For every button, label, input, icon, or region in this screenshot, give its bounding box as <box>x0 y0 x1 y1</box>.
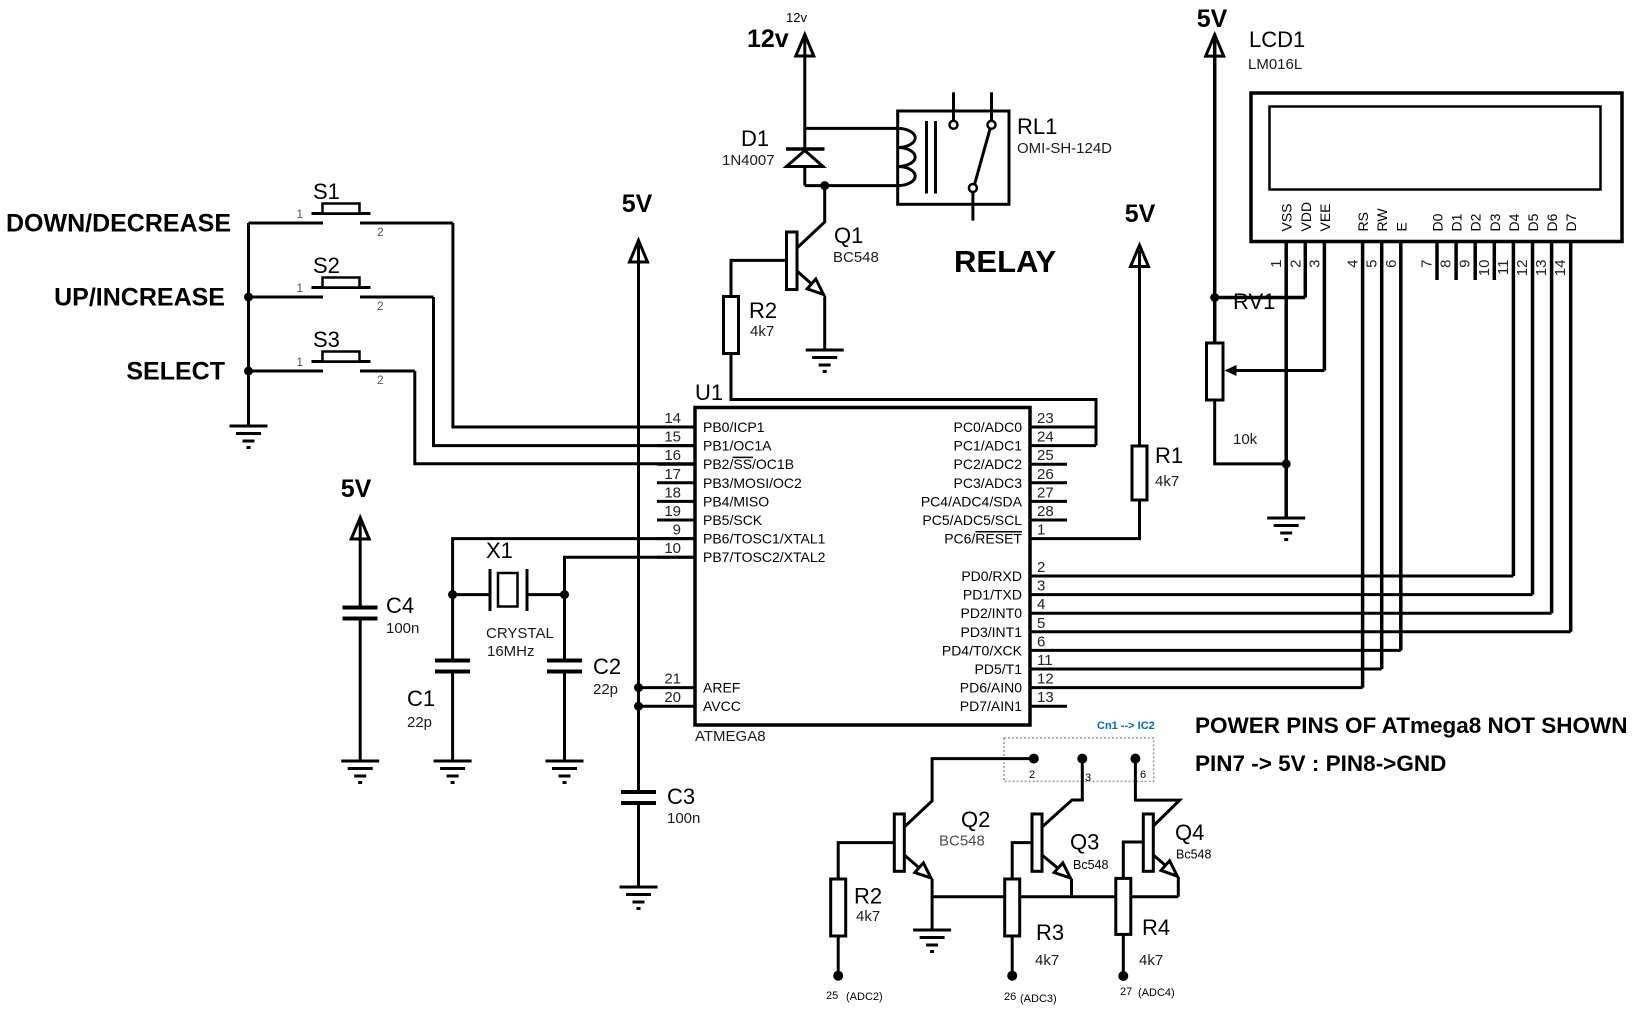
wire 5V to C4 <box>359 522 362 607</box>
svg-text:PB1/OC1A: PB1/OC1A <box>703 438 772 454</box>
resistor R2 (Q2) <box>831 879 846 936</box>
svg-text:17: 17 <box>664 466 681 483</box>
wire Cn1 pin6 to Q4 <box>1135 759 1179 827</box>
LCD LCD1 body <box>1251 93 1622 242</box>
svg-text:27: 27 <box>1120 986 1132 998</box>
svg-text:26: 26 <box>1037 466 1054 483</box>
power arrow 12v <box>796 35 814 57</box>
relay RL1 <box>898 92 1009 220</box>
wire Q1 base <box>731 260 787 296</box>
svg-text:2: 2 <box>377 373 384 387</box>
node Cn1 pin 3 <box>1077 754 1087 764</box>
svg-text:PC5/ADC5/SCL: PC5/ADC5/SCL <box>922 512 1022 528</box>
svg-text:2: 2 <box>1037 559 1045 576</box>
junction AREF <box>634 683 643 692</box>
ground (C3) <box>620 887 658 909</box>
switch S3 <box>249 327 415 387</box>
wire PD2 to D6 <box>1030 612 1552 615</box>
resistor R3 <box>1005 879 1020 936</box>
svg-text:PC1/ADC1: PC1/ADC1 <box>954 438 1023 454</box>
svg-text:C4: C4 <box>386 593 414 618</box>
pin 16 PB2/SS/OC1B <box>657 447 794 472</box>
ground (Q2 emitter) <box>913 930 951 952</box>
svg-text:22p: 22p <box>593 681 618 698</box>
svg-text:VDD: VDD <box>1298 202 1314 232</box>
pin 9 PB6/TOSC1/XTAL1 <box>657 522 826 547</box>
svg-text:PC2/ADC2: PC2/ADC2 <box>954 456 1023 472</box>
pin 19 PB5/SCK <box>657 503 763 528</box>
svg-text:LCD1: LCD1 <box>1249 27 1305 52</box>
pin 26 PC3/ADC3 <box>954 466 1067 491</box>
svg-text:PIN7 -> 5V : PIN8->GND: PIN7 -> 5V : PIN8->GND <box>1195 751 1446 776</box>
svg-text:PC3/ADC3: PC3/ADC3 <box>954 475 1023 491</box>
pin 4 RS <box>1345 212 1372 688</box>
svg-text:10k: 10k <box>1233 431 1258 448</box>
wire R1 to PC6/RESET pin 1 <box>1030 500 1140 539</box>
junction at S2 <box>244 293 253 302</box>
resistor R2 (Q1 base) <box>724 297 739 354</box>
svg-text:5V: 5V <box>341 475 372 503</box>
svg-text:D2: D2 <box>1468 213 1484 231</box>
svg-text:PB2/SS/OC1B: PB2/SS/OC1B <box>703 456 794 472</box>
pin 4 PD2/INT0 <box>961 596 1046 621</box>
svg-text:RS: RS <box>1355 212 1371 231</box>
svg-text:D0: D0 <box>1430 213 1446 231</box>
wire S1 to PB0 <box>453 223 695 427</box>
svg-text:BC548: BC548 <box>833 249 879 266</box>
capacitor C2 <box>547 661 582 761</box>
svg-text:PD7/AIN1: PD7/AIN1 <box>960 698 1022 714</box>
svg-text:11: 11 <box>1037 652 1053 669</box>
svg-text:R2: R2 <box>854 884 882 909</box>
pin 11 PD5/T1 <box>975 652 1053 677</box>
svg-text:(ADC4): (ADC4) <box>1138 987 1175 999</box>
svg-text:RL1: RL1 <box>1017 114 1057 139</box>
power arrow 5V (R1) <box>1131 245 1149 266</box>
svg-text:R1: R1 <box>1155 443 1183 468</box>
pin 14 PB0/ICP1 <box>657 410 765 435</box>
wire R4 to ADC4 terminal <box>1122 934 1125 971</box>
svg-text:DOWN/DECREASE: DOWN/DECREASE <box>6 210 231 238</box>
svg-text:23: 23 <box>1037 410 1054 427</box>
svg-text:13: 13 <box>1533 260 1550 277</box>
svg-text:3: 3 <box>1306 260 1323 268</box>
svg-text:6: 6 <box>1037 633 1045 650</box>
pin 27 PC4/ADC4/SDA <box>921 484 1067 509</box>
svg-text:RELAY: RELAY <box>954 244 1057 279</box>
node Cn1 pin 2 <box>1029 754 1039 764</box>
svg-text:Q2: Q2 <box>961 807 990 832</box>
junction at S3 <box>244 367 253 376</box>
svg-text:15: 15 <box>664 429 681 446</box>
pin 21 AREF <box>639 671 741 696</box>
svg-text:6: 6 <box>1383 260 1400 268</box>
svg-text:VSS: VSS <box>1279 203 1295 231</box>
transistor Q1 <box>787 186 825 349</box>
svg-text:26: 26 <box>1004 991 1016 1003</box>
svg-text:1: 1 <box>1268 260 1285 268</box>
wire Q4 base <box>1123 842 1143 878</box>
wire R2 to PC0/PC1 <box>731 354 1096 446</box>
pin 2 PD0/RXD <box>961 559 1045 584</box>
wire R2 to ADC2 terminal <box>837 936 840 971</box>
node ADC2 terminal <box>833 971 843 981</box>
svg-text:D5: D5 <box>1525 213 1541 231</box>
pin 10 PB7/TOSC2/XTAL2 <box>657 540 826 565</box>
wire 5V down to RV1 <box>1213 39 1217 343</box>
ground (C1) <box>434 761 472 783</box>
svg-text:D7: D7 <box>1563 213 1579 231</box>
svg-text:25: 25 <box>826 990 838 1002</box>
svg-text:4k7: 4k7 <box>856 908 880 925</box>
wire PD1 to D5 <box>1030 593 1533 596</box>
svg-text:1N4007: 1N4007 <box>722 152 775 169</box>
svg-text:(ADC3): (ADC3) <box>1020 993 1057 1005</box>
svg-text:D1: D1 <box>1449 213 1465 231</box>
svg-text:2: 2 <box>1287 260 1304 268</box>
pin 25 PC2/ADC2 <box>954 447 1067 472</box>
svg-text:PD1/TXD: PD1/TXD <box>963 587 1022 603</box>
switch S1 <box>249 179 453 239</box>
svg-text:7: 7 <box>1419 260 1436 268</box>
pin 17 PB3/MOSI/OC2 <box>657 466 802 491</box>
svg-text:2: 2 <box>1029 769 1035 781</box>
svg-text:3: 3 <box>1085 772 1091 784</box>
svg-text:4k7: 4k7 <box>1139 952 1163 969</box>
svg-text:PB6/TOSC1/XTAL1: PB6/TOSC1/XTAL1 <box>703 531 826 547</box>
svg-text:R4: R4 <box>1142 915 1170 940</box>
svg-text:PD5/T1: PD5/T1 <box>975 661 1023 677</box>
capacitor C1 <box>435 661 470 761</box>
svg-text:AREF: AREF <box>703 680 740 696</box>
wire switch bus vertical <box>247 223 250 425</box>
svg-text:100n: 100n <box>386 620 419 637</box>
svg-text:1: 1 <box>296 355 303 369</box>
svg-text:20: 20 <box>664 689 681 706</box>
svg-text:PD3/INT1: PD3/INT1 <box>961 624 1023 640</box>
svg-text:Q4: Q4 <box>1175 820 1204 845</box>
wire RV1 bottom to VSS <box>1215 400 1287 464</box>
pin 2 VDD <box>1287 202 1314 298</box>
svg-text:UP/INCREASE: UP/INCREASE <box>54 284 225 312</box>
wire 12v vertical <box>803 39 806 149</box>
pin 8 D1 stub <box>1438 213 1465 280</box>
svg-text:PC0/ADC0: PC0/ADC0 <box>954 419 1023 435</box>
power arrow 5V (LCD) <box>1206 35 1224 56</box>
pin 13 D6 <box>1533 213 1560 613</box>
ground (C4) <box>341 761 379 783</box>
node Cn1 pin 6 <box>1130 754 1140 764</box>
wire PD6 to RS <box>1030 686 1363 689</box>
svg-text:D3: D3 <box>1487 213 1503 231</box>
svg-text:16MHz: 16MHz <box>487 643 535 660</box>
svg-text:Bc548: Bc548 <box>1176 848 1211 862</box>
svg-text:PD4/T0/XCK: PD4/T0/XCK <box>942 642 1023 658</box>
svg-text:24: 24 <box>1037 429 1054 446</box>
svg-text:U1: U1 <box>695 380 723 405</box>
power arrow 5V (C4) <box>351 518 369 539</box>
svg-text:PD2/INT0: PD2/INT0 <box>961 605 1023 621</box>
pin 28 PC5/ADC5/SCL <box>922 503 1067 528</box>
svg-text:2: 2 <box>377 225 384 239</box>
wire D1 cathode to relay coil top <box>805 127 898 130</box>
pin 12 PD6/AIN0 <box>960 671 1054 696</box>
svg-text:4k7: 4k7 <box>1155 473 1179 490</box>
node ADC3 terminal <box>1007 971 1017 981</box>
junction AVCC <box>634 702 643 711</box>
wire PD4 to E <box>1030 649 1401 652</box>
wire Cn1 pin3 to Q3 <box>1042 759 1082 827</box>
wire PB6 to crystal left <box>453 539 695 660</box>
svg-text:27: 27 <box>1037 484 1054 501</box>
svg-text:RV1: RV1 <box>1233 289 1275 314</box>
crystal X1 <box>453 569 565 611</box>
power arrow 5V (middle rail) <box>630 240 648 262</box>
node ADC4 terminal <box>1118 971 1128 981</box>
wire stub pin 23 <box>1030 426 1096 429</box>
wire PD0 to D4 <box>1030 575 1513 578</box>
svg-text:9: 9 <box>1457 260 1474 268</box>
pin 12 D5 <box>1514 213 1541 594</box>
svg-text:10: 10 <box>1476 260 1493 277</box>
svg-text:5V: 5V <box>1197 5 1228 33</box>
svg-text:PB7/TOSC2/XTAL2: PB7/TOSC2/XTAL2 <box>703 549 826 565</box>
pin 11 D4 <box>1495 213 1522 576</box>
svg-text:C3: C3 <box>667 784 695 809</box>
LCD screen area <box>1270 107 1601 190</box>
wire Q2 base <box>838 843 894 879</box>
ground (VSS/RV1) <box>1267 518 1305 540</box>
svg-text:PB0/ICP1: PB0/ICP1 <box>703 419 765 435</box>
capacitor C3 <box>621 792 656 886</box>
svg-text:3: 3 <box>1037 578 1045 595</box>
wire PD5 to RW <box>1030 668 1382 671</box>
svg-text:8: 8 <box>1438 260 1455 268</box>
svg-text:18: 18 <box>664 484 681 501</box>
svg-text:28: 28 <box>1037 503 1054 520</box>
svg-text:5V: 5V <box>1125 200 1156 228</box>
wire stub pin 24 <box>1030 444 1096 447</box>
pin 14 D7 <box>1552 213 1579 631</box>
svg-text:AVCC: AVCC <box>703 698 741 714</box>
svg-text:CRYSTAL: CRYSTAL <box>486 625 554 642</box>
svg-text:Q3: Q3 <box>1070 830 1099 855</box>
svg-text:OMI-SH-124D: OMI-SH-124D <box>1017 140 1112 157</box>
ground (Q1 emitter) <box>806 350 844 372</box>
svg-text:C2: C2 <box>593 654 621 679</box>
svg-text:R2: R2 <box>749 298 777 323</box>
pin 1 PC6/RESET <box>944 522 1045 547</box>
svg-text:S3: S3 <box>313 327 340 352</box>
diode D1 <box>786 149 825 186</box>
svg-text:PD0/RXD: PD0/RXD <box>961 568 1022 584</box>
svg-text:9: 9 <box>673 522 681 539</box>
wire Q3 base <box>1012 843 1032 879</box>
svg-text:PB3/MOSI/OC2: PB3/MOSI/OC2 <box>703 475 802 491</box>
ground (C2) <box>546 761 584 783</box>
svg-text:S2: S2 <box>313 253 340 278</box>
svg-text:1: 1 <box>296 281 303 295</box>
svg-text:12: 12 <box>1037 671 1054 688</box>
junction crystal right <box>560 590 569 599</box>
capacitor C4 <box>343 608 378 761</box>
svg-text:5: 5 <box>1037 615 1045 632</box>
pin 5 PD3/INT1 <box>961 615 1046 640</box>
svg-text:D1: D1 <box>741 126 769 151</box>
svg-text:PB4/MISO: PB4/MISO <box>703 493 769 509</box>
svg-text:PC6/RESET: PC6/RESET <box>944 531 1022 547</box>
svg-text:1: 1 <box>1037 522 1045 539</box>
junction Q1 collector node <box>820 181 829 190</box>
ground (switch bus) <box>230 426 268 448</box>
svg-text:10: 10 <box>664 540 681 557</box>
svg-text:1: 1 <box>296 207 303 221</box>
svg-text:(ADC2): (ADC2) <box>846 991 883 1003</box>
transistor Q4 <box>1143 814 1178 897</box>
svg-text:4: 4 <box>1037 596 1045 613</box>
resistor R4 <box>1116 878 1131 934</box>
svg-text:Bc548: Bc548 <box>1073 858 1108 872</box>
pin 20 AVCC <box>639 689 741 714</box>
svg-text:SELECT: SELECT <box>126 358 225 386</box>
svg-text:16: 16 <box>664 447 681 464</box>
svg-text:LM016L: LM016L <box>1248 56 1302 73</box>
svg-text:21: 21 <box>664 671 681 688</box>
svg-text:PB5/SCK: PB5/SCK <box>703 512 763 528</box>
svg-text:4: 4 <box>1345 260 1362 268</box>
wire R3 to ADC3 terminal <box>1011 936 1014 971</box>
pin 3 PD1/TXD <box>963 578 1045 603</box>
svg-text:13: 13 <box>1037 689 1054 706</box>
svg-text:5V: 5V <box>622 190 653 218</box>
svg-text:PC4/ADC4/SDA: PC4/ADC4/SDA <box>921 493 1023 509</box>
pin 9 D2 stub <box>1457 213 1484 280</box>
wire VDD to 5V <box>1215 296 1306 300</box>
junction VSS/RV1 <box>1282 459 1291 468</box>
svg-text:PD6/AIN0: PD6/AIN0 <box>960 680 1022 696</box>
svg-text:RW: RW <box>1374 208 1390 232</box>
junction crystal left <box>448 590 457 599</box>
svg-text:12: 12 <box>1514 260 1531 277</box>
wire PD3 to D7 <box>1030 630 1571 633</box>
svg-text:VEE: VEE <box>1317 203 1333 231</box>
wire 5V to R1 <box>1138 250 1141 446</box>
svg-text:2: 2 <box>377 299 384 313</box>
svg-text:22p: 22p <box>407 714 432 731</box>
svg-text:D4: D4 <box>1506 213 1522 231</box>
svg-text:POWER PINS OF ATmega8 NOT SHOW: POWER PINS OF ATmega8 NOT SHOWN <box>1195 713 1628 738</box>
svg-text:14: 14 <box>1552 260 1569 277</box>
wire D1 anode to relay coil bottom <box>805 184 898 187</box>
svg-text:ATMEGA8: ATMEGA8 <box>695 728 766 745</box>
resistor R1 <box>1132 446 1147 500</box>
potentiometer RV1 <box>1207 343 1325 400</box>
svg-text:25: 25 <box>1037 447 1054 464</box>
pin 18 PB4/MISO <box>657 484 769 509</box>
svg-text:Q1: Q1 <box>834 223 863 248</box>
svg-text:11: 11 <box>1495 260 1512 276</box>
svg-text:S1: S1 <box>313 179 340 204</box>
pin 23 PC0/ADC0 <box>954 410 1054 435</box>
svg-text:14: 14 <box>664 410 681 427</box>
pin 24 PC1/ADC1 <box>954 429 1054 454</box>
svg-text:6: 6 <box>1140 769 1146 781</box>
svg-text:12v: 12v <box>786 10 807 25</box>
pin 13 PD7/AIN1 <box>960 689 1067 714</box>
pin 15 PB1/OC1A <box>657 429 772 454</box>
svg-text:D6: D6 <box>1544 213 1560 231</box>
svg-text:Cn1 --> IC2: Cn1 --> IC2 <box>1097 720 1155 732</box>
wire PB7 to crystal right <box>565 557 696 660</box>
pin 3 VEE <box>1306 203 1333 370</box>
pin 5 RW <box>1364 208 1391 669</box>
svg-text:100n: 100n <box>667 810 700 827</box>
pin 6 PD4/T0/XCK <box>942 633 1045 658</box>
wire emitter ground rail <box>932 895 1178 898</box>
IC U1 ATmega8 body <box>695 408 1030 726</box>
svg-text:C1: C1 <box>407 686 435 711</box>
wire S3 to PB2 <box>415 371 695 464</box>
svg-text:4k7: 4k7 <box>1035 952 1059 969</box>
wire S2 to PB1 <box>434 297 696 446</box>
svg-text:E: E <box>1393 222 1409 231</box>
svg-text:4k7: 4k7 <box>750 323 774 340</box>
pin 6 E <box>1383 222 1410 650</box>
connector Cn1 outline <box>1004 738 1154 781</box>
svg-text:R3: R3 <box>1036 920 1064 945</box>
svg-text:X1: X1 <box>486 538 513 563</box>
transistor Q2 <box>894 759 1034 929</box>
svg-text:12v: 12v <box>747 25 789 53</box>
pin 1 VSS <box>1268 203 1295 517</box>
wire 5V rail vertical <box>637 245 640 792</box>
svg-text:BC548: BC548 <box>939 833 985 850</box>
transistor Q3 <box>1032 814 1072 897</box>
pin 10 D3 stub <box>1476 213 1503 280</box>
switch S2 <box>249 253 434 313</box>
pin 7 D0 stub <box>1419 213 1446 280</box>
svg-text:19: 19 <box>664 503 681 520</box>
junction VDD node <box>1210 293 1219 302</box>
svg-text:5: 5 <box>1364 260 1381 268</box>
